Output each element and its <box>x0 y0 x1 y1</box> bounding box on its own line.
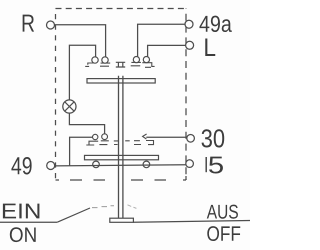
wire 49 contact branch <box>70 137 93 166</box>
terminal L <box>186 41 194 49</box>
contact circle top pair1 left <box>92 57 98 63</box>
wire 49 to 15 <box>55 165 186 166</box>
actuator base plate <box>110 218 134 222</box>
terminal 49a <box>185 20 193 28</box>
contact circle top pair1 right <box>102 57 108 63</box>
contact base right pair left <box>131 62 141 65</box>
contact circle lower row right <box>102 134 108 140</box>
wire 30 to spring contact <box>146 136 187 138</box>
wire lamp to lower contact <box>69 113 104 134</box>
wire R to contact <box>55 25 106 57</box>
switch lever <box>57 208 90 222</box>
label OFF <box>207 226 240 241</box>
contact base left pair left <box>85 63 93 66</box>
label 49a <box>199 16 231 32</box>
label ON <box>10 227 36 242</box>
lower fixed contact bracket near 30 <box>146 141 154 145</box>
lower fixed contact dashes under right circle <box>99 141 108 145</box>
lower fixed contact dashes left bracket <box>86 141 98 145</box>
wire contact to lamp <box>69 45 95 100</box>
label 15 <box>209 157 223 174</box>
lower fixed contact dashes beside shaft right <box>125 141 141 145</box>
lamp symbol <box>63 100 76 113</box>
dashed enclosure box left edge <box>55 9 57 181</box>
upper bridge bar <box>87 79 155 83</box>
fixed contact plates pi symbol <box>116 62 125 67</box>
actuator shaft <box>119 76 123 219</box>
dashed enclosure box right edge <box>185 9 187 181</box>
dashed enclosure box top edge <box>56 8 187 10</box>
label EIN <box>3 204 40 219</box>
contact base left pair right <box>100 63 110 66</box>
contact circle lower row left <box>93 134 98 139</box>
lower fixed contact dashes beside shaft left <box>114 141 119 145</box>
lever dashed mirror right <box>128 205 137 209</box>
arrow hook on 30 wire <box>143 134 147 139</box>
lower bridge bar <box>85 155 159 159</box>
bridge contact circle lower left <box>93 161 100 168</box>
dashed enclosure box bottom edge <box>56 176 187 180</box>
wire L to contact <box>148 45 186 56</box>
label 30 <box>202 129 225 147</box>
contact circle top pair2 left <box>133 57 139 63</box>
lever dashed continuation <box>92 206 114 208</box>
label 49 <box>11 157 31 175</box>
AUS position line <box>133 221 250 223</box>
label L <box>205 39 215 56</box>
terminal 49 <box>47 162 55 170</box>
label R <box>23 15 34 32</box>
terminal 30 <box>187 135 195 143</box>
EIN position line <box>0 221 57 223</box>
bridge contact circle lower right <box>143 161 150 168</box>
wire 49a to contact <box>138 24 186 56</box>
terminal R <box>47 21 55 29</box>
contact circle top pair2 right <box>143 57 149 63</box>
terminal 15 <box>186 160 194 168</box>
contact base right pair right <box>142 63 154 68</box>
label AUS <box>207 205 238 219</box>
